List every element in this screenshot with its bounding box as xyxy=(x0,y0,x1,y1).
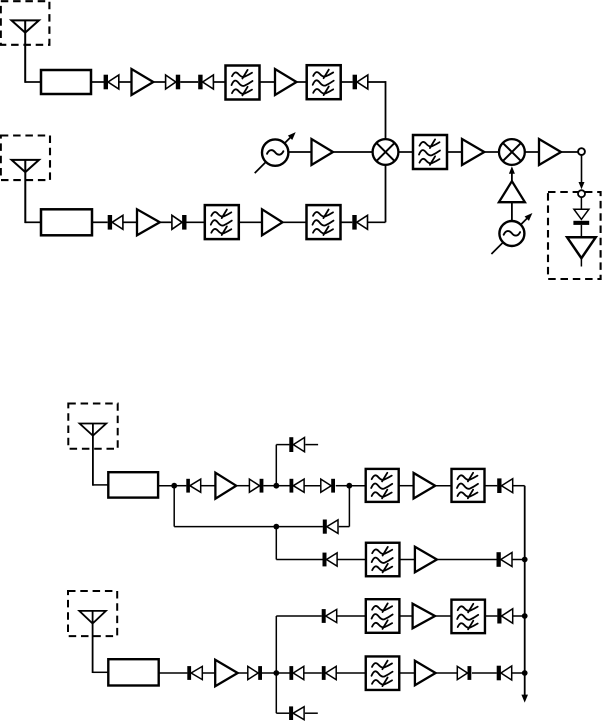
amplifier U16 xyxy=(413,604,435,629)
wire VD10 to node 2 xyxy=(263,485,276,487)
wire up to node 3 xyxy=(348,486,350,527)
wire Z10 to diode xyxy=(485,485,498,487)
diode VD13 xyxy=(497,478,513,493)
wire G1 to amp xyxy=(288,151,311,153)
diode VD15 xyxy=(323,520,338,534)
bandpass filter Z15 xyxy=(451,600,485,634)
wire down to mixer U3 xyxy=(385,81,387,140)
diode VD26 xyxy=(289,706,304,720)
diode VD10 xyxy=(249,479,263,493)
wire VD1 to amp xyxy=(119,81,132,83)
wire node1 to diode xyxy=(174,485,186,487)
wire U4 to mixer xyxy=(333,151,374,153)
bandpass filter Z10 xyxy=(452,469,485,502)
wire node1 down xyxy=(173,486,175,527)
detector/output dashed enclosure xyxy=(548,192,601,279)
wire Z6 to amp xyxy=(240,221,263,223)
stub right of VD14 xyxy=(305,444,318,446)
wire VD25 to bus xyxy=(513,615,525,617)
diode VD7 xyxy=(172,215,187,230)
wire VD18 to amp xyxy=(202,672,215,674)
wire VD16 to filter xyxy=(337,559,366,561)
diode VD12 xyxy=(321,479,335,493)
wire node4 down xyxy=(275,527,277,560)
diode VD8 xyxy=(352,215,367,230)
wire Z3 to diode xyxy=(341,81,353,83)
bus junction at row C xyxy=(522,557,528,563)
diode VD5 (detector) xyxy=(573,209,589,225)
wire Z2 to amp xyxy=(260,81,276,83)
antenna A1 dashed enclosure xyxy=(1,1,50,45)
output bus vertical xyxy=(524,486,526,698)
diode VD4 xyxy=(353,75,368,90)
wire X1 down to detector xyxy=(581,155,583,185)
row C horizontal xyxy=(276,559,322,561)
wire VD13 to bus xyxy=(513,485,525,487)
diode VD23 xyxy=(497,666,512,681)
wire VD15 right xyxy=(339,526,350,528)
wire Z14 to amp xyxy=(400,615,413,617)
wire VD5 to output transducer xyxy=(580,225,582,237)
wire VD7 to filter xyxy=(187,221,205,223)
wire VD23 to bus xyxy=(512,672,525,674)
amplifier U11 xyxy=(215,473,236,499)
wire U11 to diode xyxy=(236,485,249,487)
wire VD24 to filter xyxy=(337,615,366,617)
wire U1 to diode xyxy=(153,81,165,83)
wire U7 to output node xyxy=(561,151,578,153)
wire Z4 to amp xyxy=(447,151,462,153)
mixer U6 xyxy=(499,139,525,165)
wire U14 to diode xyxy=(238,672,248,674)
bandpass filter Z3 xyxy=(307,65,341,99)
row B horizontal xyxy=(174,526,323,528)
wire VD12 to node 3 xyxy=(336,485,350,487)
amplifier U12 xyxy=(414,473,436,499)
amplifier U14 xyxy=(215,660,238,687)
junction node 5 xyxy=(273,670,279,676)
bandpass filter Z9 xyxy=(366,469,399,502)
wire VD2 to diode xyxy=(180,81,198,83)
diode VD2 xyxy=(166,75,181,90)
diode VD20 xyxy=(289,666,303,680)
wire node5 to diode xyxy=(276,672,289,674)
antenna A4 xyxy=(79,611,106,673)
wire U15 to diode xyxy=(436,672,458,674)
wire to diode VD14 xyxy=(276,444,289,446)
wire VD17 to bus xyxy=(512,559,524,561)
wire U16 to filter xyxy=(435,615,452,617)
junction node 2 xyxy=(273,483,279,489)
wire VD9 to amp xyxy=(201,485,216,487)
diode VD21 xyxy=(322,666,336,680)
amplifier U7 xyxy=(539,139,561,165)
bandpass filter Z14 xyxy=(366,599,400,633)
arrowhead into detector xyxy=(579,182,585,189)
diode VD14 xyxy=(289,437,304,452)
bus output arrowhead xyxy=(521,695,528,703)
amplifier U8 (LO2 buffer) xyxy=(499,181,525,202)
bus junction at row E xyxy=(522,670,528,676)
wire X2 to diode VD5 xyxy=(580,197,582,209)
bus junction at row D xyxy=(522,613,528,619)
diode VD22 xyxy=(457,666,471,680)
wire node5 down xyxy=(275,673,277,713)
diode VD1 xyxy=(104,75,119,90)
bandpass filter Z13 xyxy=(366,656,400,690)
wire node5 up xyxy=(275,616,277,673)
junction node 4 xyxy=(273,524,279,530)
wire Z5 to diode xyxy=(92,221,108,223)
amplifier U15 xyxy=(415,661,436,686)
junction node 3 xyxy=(346,483,352,489)
bandpass filter Z7 xyxy=(307,205,341,239)
wire U12 to filter xyxy=(435,485,451,487)
wire below B1 xyxy=(580,258,582,266)
wire node3 to filter xyxy=(349,485,366,487)
mixer U3 xyxy=(373,139,399,165)
diode VD18 xyxy=(187,666,202,680)
arrow into mixer U6 xyxy=(509,166,515,181)
diode VD24 xyxy=(322,609,337,623)
wire Z13 to amp xyxy=(399,672,415,674)
antenna A4 dashed enclosure xyxy=(68,591,117,636)
wire Z11 to amp xyxy=(400,559,415,561)
amplifier U1 xyxy=(132,69,154,95)
diode VD17 xyxy=(497,552,513,567)
antenna A3 dashed enclosure xyxy=(68,404,117,449)
variable local oscillator G2 xyxy=(491,213,532,254)
wire VD4 right xyxy=(368,81,386,83)
diode VD11 xyxy=(290,479,305,493)
wire U8 to oscillator xyxy=(511,202,513,221)
wire VD20 to diode xyxy=(304,672,322,674)
wire VD22 to diode xyxy=(472,672,497,674)
wire VD19 to node 5 xyxy=(262,672,276,674)
output transducer B1 (triangle) xyxy=(567,237,596,258)
diode VD16 xyxy=(323,553,338,567)
wire VD6 to amp xyxy=(123,221,137,223)
antenna A2 dashed enclosure xyxy=(1,136,50,181)
wire U6 to amp xyxy=(525,151,539,153)
amplifier U10 xyxy=(262,209,283,235)
row F horizontal xyxy=(276,712,289,714)
bandpass filter Z11 xyxy=(366,543,400,577)
bandpass filter Z2 xyxy=(226,66,260,100)
wire Z15 to diode xyxy=(485,615,497,617)
diode VD6 xyxy=(108,215,123,230)
amplifier U2 xyxy=(275,69,297,95)
attenuator block Z8 xyxy=(108,472,158,497)
antenna A3 xyxy=(80,424,107,486)
attenuator block Z5 xyxy=(41,209,92,235)
attenuator block Z1 xyxy=(41,70,91,94)
wire VD11 to diode xyxy=(304,485,320,487)
diode VD9 xyxy=(186,479,200,493)
wire A2 to attenuator xyxy=(25,221,41,223)
bandpass filter Z4 xyxy=(413,135,447,169)
wire U13 to diode xyxy=(437,559,497,561)
amplifier U4 (LO buffer) xyxy=(312,139,334,165)
wire U3 to filter xyxy=(398,151,413,153)
wire A3 to attenuator xyxy=(93,484,108,486)
diode VD19 xyxy=(248,666,262,680)
wire Z1 to diode xyxy=(91,81,104,83)
diode VD3 xyxy=(198,75,213,90)
antenna A1 xyxy=(12,20,39,82)
wire node2 up xyxy=(275,445,277,486)
open input terminal X2 xyxy=(578,190,585,197)
wire Z8 to node 1 xyxy=(158,485,174,487)
open output terminal X1 xyxy=(578,148,585,155)
amplifier U9 xyxy=(137,209,160,235)
wire Z9 to amp xyxy=(399,485,414,487)
wire up to mixer U3 xyxy=(385,164,387,222)
stub right of VD26 xyxy=(305,712,318,714)
wire U5 to mixer U6 xyxy=(484,151,500,153)
diode VD25 xyxy=(497,609,512,624)
amplifier U13 xyxy=(415,547,437,573)
bandpass filter Z6 xyxy=(205,205,239,239)
wire A1 to attenuator xyxy=(25,81,41,83)
wire A4 to attenuator xyxy=(93,671,109,673)
wire U9 to diode xyxy=(160,221,172,223)
wire VD21 to filter xyxy=(336,672,366,674)
amplifier U5 xyxy=(462,139,484,165)
wire node2 to diode xyxy=(276,485,289,487)
wire Z7 to diode xyxy=(341,221,352,223)
wire U10 to filter xyxy=(283,221,307,223)
variable local oscillator G1 xyxy=(255,132,296,173)
row D horizontal xyxy=(276,615,322,617)
wire Z12 to diode xyxy=(159,672,188,674)
antenna A2 xyxy=(12,160,39,223)
junction node 1 xyxy=(171,483,177,489)
attenuator block Z12 xyxy=(108,659,158,685)
wire VD3 to filter xyxy=(213,81,226,83)
wire VD8 right xyxy=(368,221,386,223)
wire U2 to filter xyxy=(297,81,308,83)
